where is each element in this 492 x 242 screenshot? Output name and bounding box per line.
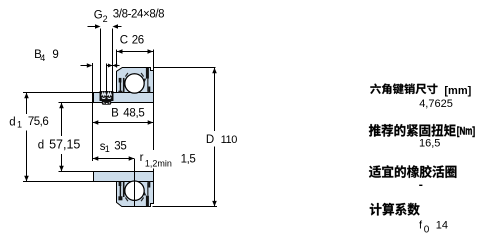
svg-text:48,5: 48,5 bbox=[123, 108, 144, 120]
svg-text:1,5: 1,5 bbox=[181, 153, 196, 165]
svg-text:35: 35 bbox=[114, 141, 126, 153]
svg-text:d: d bbox=[9, 116, 15, 128]
svg-text:75,6: 75,6 bbox=[28, 116, 48, 128]
svg-text:14: 14 bbox=[436, 219, 448, 231]
svg-text:C: C bbox=[120, 35, 128, 47]
svg-text:G: G bbox=[94, 9, 103, 21]
svg-text:9: 9 bbox=[52, 49, 58, 61]
svg-text:57,15: 57,15 bbox=[49, 138, 80, 152]
svg-text:[mm]: [mm] bbox=[444, 85, 471, 97]
svg-text:110: 110 bbox=[221, 134, 238, 146]
svg-text:r: r bbox=[140, 152, 144, 164]
svg-text:B: B bbox=[111, 108, 119, 120]
svg-text:3/8-24×8/8: 3/8-24×8/8 bbox=[113, 9, 164, 21]
svg-text:1: 1 bbox=[17, 120, 22, 130]
svg-text:[Nm]: [Nm] bbox=[457, 125, 475, 138]
svg-text:0: 0 bbox=[424, 225, 430, 236]
svg-text:f: f bbox=[419, 219, 423, 231]
svg-text:1,2min: 1,2min bbox=[145, 158, 172, 168]
svg-text:d: d bbox=[38, 140, 44, 152]
svg-text:16,5: 16,5 bbox=[419, 138, 440, 150]
svg-text:1: 1 bbox=[105, 144, 110, 154]
svg-text:4,7625: 4,7625 bbox=[419, 98, 453, 110]
svg-text:4: 4 bbox=[40, 53, 45, 63]
svg-text:26: 26 bbox=[132, 35, 144, 47]
svg-text:2: 2 bbox=[103, 14, 108, 24]
svg-text:D: D bbox=[206, 134, 214, 146]
